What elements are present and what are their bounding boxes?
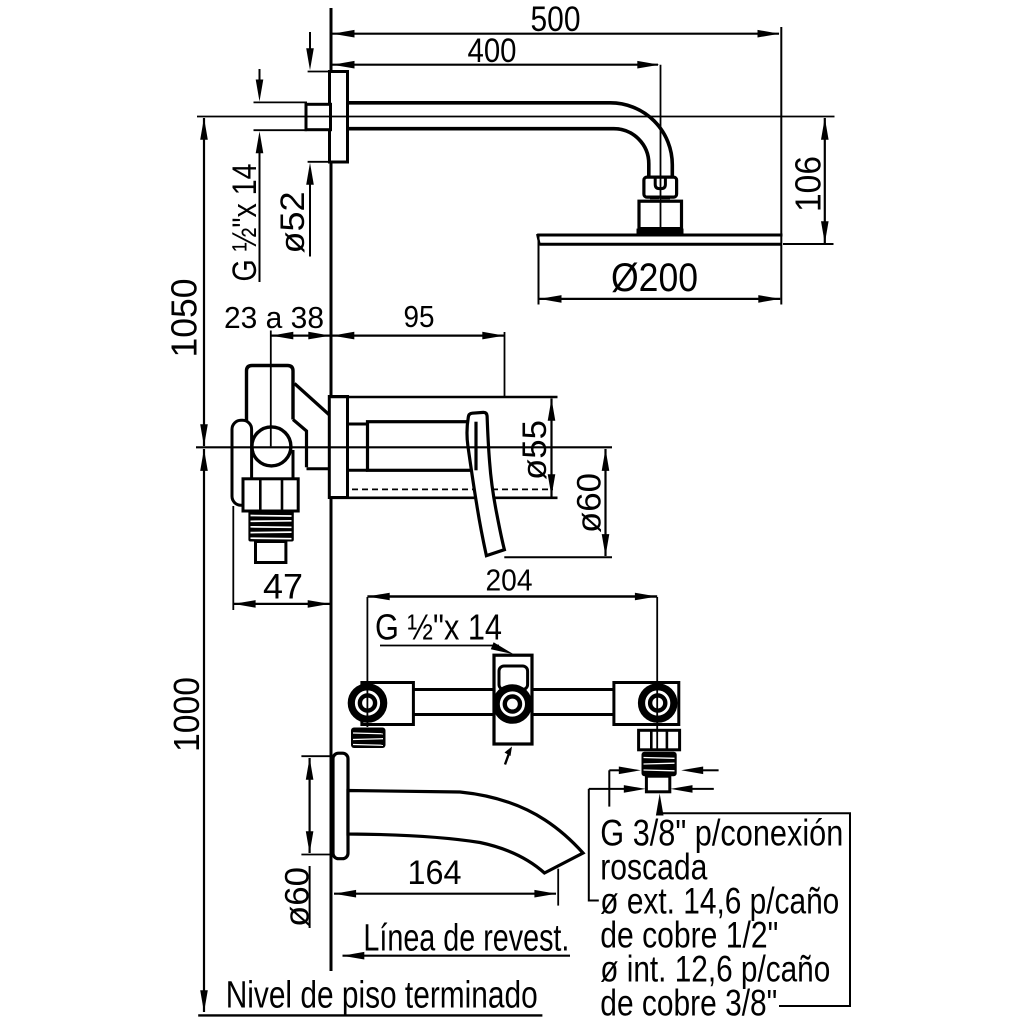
svg-text:G ½"x 14: G ½"x 14 xyxy=(226,164,264,282)
mixer left bar xyxy=(232,420,252,505)
23 a 38 extension line xyxy=(270,331,272,447)
dimension 47 xyxy=(233,506,330,610)
mixer flange top extension line (diameter 55 top) xyxy=(331,396,558,398)
G 1/2 x 14 label (tub valve) with leader xyxy=(375,607,514,655)
dimension 95 xyxy=(332,299,505,397)
svg-text:95: 95 xyxy=(404,299,435,334)
dimension 106 xyxy=(783,118,834,244)
svg-text:164: 164 xyxy=(408,854,462,892)
shower head collar xyxy=(637,229,684,235)
dimension 164 xyxy=(334,854,558,906)
svg-text:400: 400 xyxy=(468,32,517,70)
tub valve center cartridge xyxy=(499,666,528,690)
mixer body bottom edge to wall xyxy=(307,467,331,470)
svg-text:23 a 38: 23 a 38 xyxy=(224,300,324,335)
svg-text:1050: 1050 xyxy=(164,279,205,358)
bottom connection up arrow and text box xyxy=(656,794,850,1007)
mixer sleeve end cap line xyxy=(474,422,477,471)
dimension D200 xyxy=(539,234,781,305)
leader bracket to G 3/8 text xyxy=(608,770,610,806)
mixer flange bottom extension line (diameter 55 bottom) xyxy=(329,496,557,499)
diameter 52 label (rotated) with arrows xyxy=(274,32,348,257)
leader bracket to diameter ext text xyxy=(589,789,599,901)
tub valve right block xyxy=(614,683,679,725)
threaded nipple socket in wall xyxy=(306,104,331,129)
dimension diameter 60 (mixer) xyxy=(504,449,612,557)
shower arm nut xyxy=(644,177,677,198)
head centerline / 400 extension xyxy=(660,65,662,228)
svg-text:ø60: ø60 xyxy=(571,473,609,533)
shower head plate xyxy=(537,234,782,246)
tub spout xyxy=(348,791,583,874)
svg-text:Ø200: Ø200 xyxy=(611,256,698,300)
svg-text:ø60: ø60 xyxy=(279,867,317,927)
mixer hex nut xyxy=(243,479,298,511)
mixer centerline horizontal xyxy=(196,446,612,448)
dimension 23 a 38 xyxy=(224,300,331,339)
connection note text block xyxy=(600,813,843,1024)
mixer threaded section xyxy=(248,511,293,542)
svg-text:ø55: ø55 xyxy=(516,420,554,480)
mixer handle xyxy=(467,412,504,555)
tub valve left threaded stub xyxy=(351,728,386,749)
mixer bottom stub xyxy=(256,542,286,563)
arm centerline xyxy=(197,116,835,118)
tub valve center body xyxy=(494,655,532,744)
tub valve right threaded section xyxy=(642,752,677,776)
dimension 1000 xyxy=(166,449,208,1012)
svg-text:ø52: ø52 xyxy=(274,192,312,254)
tub valve left port rings xyxy=(351,687,383,719)
svg-text:Nivel de piso terminado: Nivel de piso terminado xyxy=(226,975,538,1017)
tub valve center port rings xyxy=(496,688,528,720)
G 3/8 arrows lower pair xyxy=(589,785,714,793)
dimension 1050 xyxy=(164,118,208,447)
tub valve left block xyxy=(362,683,414,725)
svg-text:Línea de revest.: Línea de revest. xyxy=(363,918,569,960)
mixer body chamfer diagonal to wall xyxy=(295,384,331,416)
shower arm wall flange xyxy=(330,72,348,163)
dimension diameter 60 (spout) xyxy=(279,756,331,928)
tub valve center bottom arrow mark xyxy=(505,747,513,765)
shower arm tube xyxy=(346,103,672,178)
tub spout wall flange xyxy=(333,753,348,859)
mixer hidden dashed line xyxy=(352,488,553,490)
svg-text:204: 204 xyxy=(486,563,533,598)
wall line xyxy=(330,8,333,971)
svg-text:47: 47 xyxy=(263,568,303,607)
204 extension lines through ports xyxy=(366,597,368,727)
dimension diameter 55 xyxy=(516,399,555,497)
dimension 204 xyxy=(367,563,657,601)
nivel de piso terminado label xyxy=(198,975,542,1017)
tub valve right port rings xyxy=(642,687,674,719)
svg-text:500: 500 xyxy=(531,0,581,39)
G 1/2 x 14 label (rotated) with arrows xyxy=(226,69,264,282)
shower head mount block xyxy=(639,201,682,228)
mixer wall flange xyxy=(329,397,347,498)
svg-text:G ½"x 14: G ½"x 14 xyxy=(375,607,502,648)
svg-text:1000: 1000 xyxy=(166,677,207,752)
G 3/8 arrows upper pair xyxy=(609,767,718,775)
tub valve right union nut xyxy=(639,730,680,750)
dimension 500 xyxy=(332,0,780,39)
mixer cartridge sleeve xyxy=(368,422,477,471)
tub valve crossbar xyxy=(414,690,614,715)
tub valve right stub xyxy=(646,776,669,792)
G 1/2 x 14 thread extension lines xyxy=(254,101,308,103)
linea de revest label xyxy=(342,918,570,960)
head right extension line xyxy=(780,27,782,305)
svg-text:106: 106 xyxy=(788,156,829,212)
mixer top port xyxy=(247,366,294,441)
dimension 400 xyxy=(332,32,659,70)
mixer ball xyxy=(252,427,291,466)
mixer cartridge neck xyxy=(348,423,368,426)
mixer body column lines below ball xyxy=(249,450,252,479)
mixer body shoulder and right edge xyxy=(293,420,307,468)
svg-text:de cobre 3/8": de cobre 3/8" xyxy=(600,983,777,1024)
